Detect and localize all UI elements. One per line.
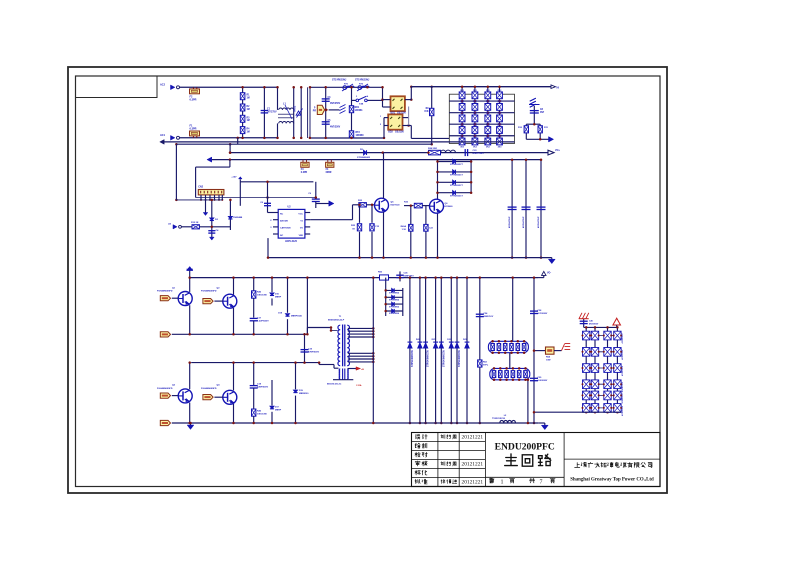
svg-text:FGH40N60SFD: FGH40N60SFD — [201, 387, 217, 390]
svg-text:HCPL3120: HCPL3120 — [285, 240, 297, 243]
svg-text:VO: VO — [300, 228, 303, 230]
svg-text:10K/2.5W: 10K/2.5W — [257, 414, 268, 416]
svg-text:NC: NC — [280, 235, 284, 237]
svg-text:6.3PR: 6.3PR — [190, 128, 197, 131]
svg-text:4.7K/630V: 4.7K/630V — [538, 312, 548, 315]
svg-text:450V/470UF: 450V/470UF — [522, 216, 525, 228]
svg-text:ANODE: ANODE — [280, 220, 288, 223]
svg-text:FGH40N60SFD: FGH40N60SFD — [157, 290, 173, 293]
svg-text:HI: HI — [557, 86, 560, 89]
svg-text:K15N60: K15N60 — [445, 206, 454, 208]
svg-text:GBJ15K: GBJ15K — [395, 132, 404, 134]
svg-text:R40A: R40A — [401, 225, 407, 228]
svg-text:6.3PR: 6.3PR — [190, 99, 197, 102]
svg-text:450V/470UF: 450V/470UF — [537, 216, 540, 228]
svg-text:PR: PR — [313, 111, 317, 113]
svg-text:AC2: AC2 — [160, 84, 166, 87]
svg-text:VRU1: VRU1 — [295, 105, 297, 112]
svg-text:LN: LN — [168, 224, 171, 226]
svg-text:AC1: AC1 — [160, 134, 166, 137]
svg-text:FGH40N60SFD: FGH40N60SFD — [201, 290, 217, 293]
svg-text:4N7: 4N7 — [540, 111, 545, 114]
svg-text:20121221: 20121221 — [462, 480, 484, 486]
svg-text:1M: 1M — [247, 98, 250, 100]
svg-text:MBRP: MBRP — [275, 297, 282, 299]
svg-text:STTH3R06: STTH3R06 — [389, 293, 400, 295]
svg-text:VEE: VEE — [299, 235, 304, 237]
svg-text:470UF/35V: 470UF/35V — [621, 405, 624, 416]
svg-text:R12 2K: R12 2K — [191, 222, 199, 224]
svg-text:470UF/35V: 470UF/35V — [621, 349, 624, 360]
svg-text:2.2UF/630V: 2.2UF/630V — [257, 321, 269, 323]
svg-text:F-: F- — [314, 108, 316, 110]
svg-text:1N5248B: 1N5248B — [233, 216, 243, 219]
svg-text:GBJ15K: GBJ15K — [397, 113, 406, 115]
svg-text:47NF/630V: 47NF/630V — [308, 351, 320, 354]
svg-text:1M: 1M — [247, 109, 250, 111]
svg-text:.47/275V: .47/275V — [267, 111, 277, 114]
svg-text:22NF/630V: 22NF/630V — [257, 387, 269, 389]
svg-text:22NF/1KV: 22NF/1KV — [484, 316, 494, 318]
svg-text:15K: 15K — [424, 111, 429, 113]
svg-text:MBR8100: MBR8100 — [299, 393, 309, 395]
svg-text:BD2: BD2 — [388, 132, 393, 134]
svg-text:NR1: NR1 — [355, 107, 360, 109]
svg-text:1K: 1K — [352, 228, 355, 230]
svg-text:14D681: 14D681 — [355, 109, 364, 112]
svg-text:STPS40M80CW: STPS40M80CW — [427, 349, 430, 367]
svg-text:VO-: VO- — [547, 273, 551, 275]
svg-text:K40T120: K40T120 — [391, 204, 401, 207]
svg-text:MBRP1545: MBRP1545 — [291, 315, 303, 318]
svg-text:20121221: 20121221 — [462, 435, 484, 441]
svg-text:13D680: 13D680 — [356, 135, 365, 137]
svg-text:STTH2003CT: STTH2003CT — [450, 195, 464, 197]
svg-text:1M: 1M — [247, 131, 250, 133]
svg-text:+B: +B — [361, 369, 364, 371]
svg-text:1.1K: 1.1K — [402, 229, 407, 231]
svg-text:STTH2003CT: STTH2003CT — [450, 175, 464, 177]
svg-text:7: 7 — [540, 479, 543, 485]
svg-text:470UF/35V: 470UF/35V — [621, 393, 624, 404]
svg-text:STTH2003CT: STTH2003CT — [450, 164, 464, 166]
svg-text:1: 1 — [501, 479, 504, 485]
svg-text:C-RA: C-RA — [356, 384, 362, 387]
svg-text:STC4R025NJ: STC4R025NJ — [355, 79, 370, 82]
svg-text:470PF/1KV: 470PF/1KV — [473, 152, 485, 155]
svg-text:NC: NC — [280, 213, 284, 215]
svg-text:450V/470UF: 450V/470UF — [508, 216, 511, 228]
svg-text:ENDU200PFC: ENDU200PFC — [495, 442, 555, 453]
svg-text:4N7/250V: 4N7/250V — [330, 102, 341, 105]
svg-text:63BR: 63BR — [326, 172, 332, 174]
svg-text:470UF/35V: 470UF/35V — [621, 381, 624, 392]
svg-text:STPS40M80CW: STPS40M80CW — [411, 349, 414, 367]
svg-text:FGH40N60SFD: FGH40N60SFD — [157, 387, 173, 390]
svg-text:R28 5W1: R28 5W1 — [428, 148, 438, 150]
svg-text:MBRP: MBRP — [275, 410, 282, 412]
svg-text:STTH3R06: STTH3R06 — [389, 306, 400, 308]
svg-text:2.2K/630V: 2.2K/630V — [538, 380, 548, 382]
svg-text:470UF/35V: 470UF/35V — [621, 333, 624, 344]
svg-text:VO+: VO+ — [555, 149, 560, 152]
svg-text:Shanghai Greatway Top Power CO: Shanghai Greatway Top Power CO.,Ltd — [570, 478, 654, 483]
svg-text:STPS40M80CW: STPS40M80CW — [458, 349, 461, 367]
svg-text:STTH3R06: STTH3R06 — [389, 300, 400, 302]
svg-text:STPS40M80CW: STPS40M80CW — [442, 349, 445, 367]
svg-text:20121221: 20121221 — [462, 462, 484, 468]
svg-text:6.3PR: 6.3PR — [301, 172, 308, 174]
svg-text:STC4R025NJ: STC4R025NJ — [332, 79, 347, 82]
svg-text:STGW40H65: STGW40H65 — [357, 156, 371, 159]
svg-text:10K/2.5W: 10K/2.5W — [257, 295, 268, 297]
svg-text:BD1: BD1 — [391, 113, 396, 115]
svg-text:CN2: CN2 — [198, 186, 203, 189]
svg-text:CATHODE: CATHODE — [280, 227, 291, 230]
svg-text:EE55/28/25-4LP: EE55/28/25-4LP — [328, 318, 345, 321]
svg-text:VCC: VCC — [298, 213, 303, 215]
svg-text:+15V: +15V — [231, 177, 237, 179]
svg-text:EE10/5.5/5-3C: EE10/5.5/5-3C — [327, 383, 342, 385]
svg-text:1M: 1M — [247, 120, 250, 122]
svg-text:STTH2003CT: STTH2003CT — [450, 185, 464, 187]
svg-text:STTH3R06: STTH3R06 — [389, 313, 400, 315]
svg-text:S1B: S1B — [359, 104, 364, 106]
svg-text:TX25X15X10: TX25X15X10 — [492, 418, 506, 420]
svg-text:4N7/250V: 4N7/250V — [589, 323, 599, 326]
svg-text:470UF/35V: 470UF/35V — [621, 365, 624, 376]
svg-text:STFL: STFL — [483, 365, 489, 367]
svg-text:RT2: RT2 — [356, 132, 361, 134]
svg-text:4N7/250V: 4N7/250V — [330, 125, 341, 128]
